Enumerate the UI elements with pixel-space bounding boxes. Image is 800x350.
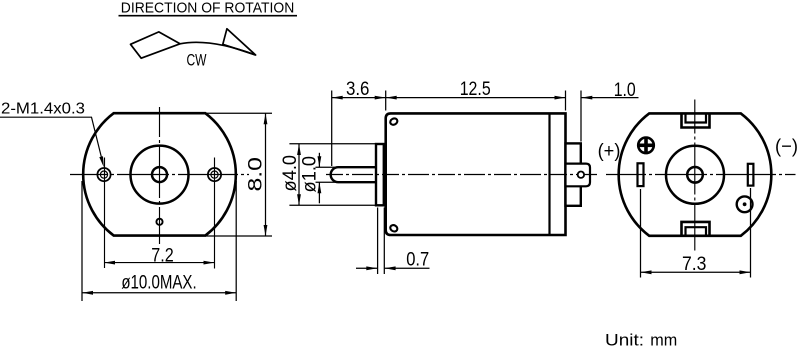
svg-text:7.2: 7.2	[151, 245, 174, 266]
svg-text:(−): (−)	[775, 136, 798, 157]
svg-text:7.3: 7.3	[682, 254, 707, 275]
svg-text:(+): (+)	[598, 141, 621, 162]
svg-text:Unit:: Unit:	[605, 330, 644, 349]
svg-text:8.0: 8.0	[246, 157, 267, 192]
svg-text:ø1.0: ø1.0	[300, 156, 321, 193]
svg-text:2-M1.4x0.3: 2-M1.4x0.3	[1, 100, 85, 117]
svg-text:ø10.0MAX.: ø10.0MAX.	[121, 272, 196, 293]
svg-text:12.5: 12.5	[460, 79, 491, 100]
svg-text:ø4.0: ø4.0	[280, 155, 301, 192]
svg-text:3.6: 3.6	[346, 79, 370, 100]
svg-text:mm: mm	[650, 330, 677, 349]
svg-text:CW: CW	[187, 50, 207, 69]
svg-text:DIRECTION OF ROTATION: DIRECTION OF ROTATION	[121, 0, 294, 16]
svg-text:0.7: 0.7	[406, 249, 429, 270]
svg-text:1.0: 1.0	[614, 80, 636, 101]
